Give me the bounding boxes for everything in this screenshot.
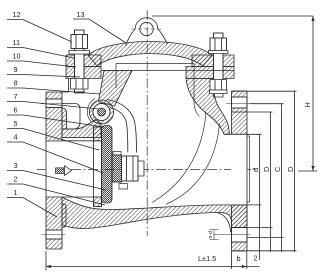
- svg-text:10: 10: [13, 52, 21, 61]
- left hub upper hatched: [62, 108, 67, 129]
- body bottom wall hatched: [62, 197, 247, 228]
- disc washer: [112, 155, 122, 182]
- bolt hole centerline bottom: [41, 234, 65, 236]
- leader 13: [73, 19, 126, 43]
- disc nut: [122, 156, 145, 181]
- body flange left hatched: [66, 67, 101, 79]
- leader 8: [7, 88, 100, 94]
- hinge pin: [93, 104, 110, 121]
- leader 10: [7, 61, 76, 67]
- bonnet arc band hatched: [88, 42, 212, 67]
- dim H extension top: [152, 15, 313, 17]
- dim D: [232, 91, 297, 252]
- svg-text:d: d: [251, 168, 260, 172]
- seat ring: [94, 127, 102, 207]
- leader 3: [7, 171, 106, 191]
- svg-text:9: 9: [14, 65, 18, 74]
- body right upper wall hatched: [186, 79, 229, 135]
- dim d: [247, 134, 262, 260]
- svg-text:6: 6: [14, 106, 18, 115]
- bonnet joint line: [101, 70, 234, 72]
- flow arrow: [56, 168, 66, 174]
- leader 6: [7, 115, 104, 127]
- svg-text:13: 13: [77, 10, 85, 19]
- bolt hole centerline top right: [226, 103, 250, 105]
- hinge boss outer: [90, 100, 114, 124]
- svg-text:D: D: [262, 167, 271, 172]
- inlet nozzle top wall hatched: [62, 120, 101, 138]
- hinge bracket hatched: [99, 71, 133, 107]
- bonnet spigot: [116, 64, 194, 71]
- svg-text:8: 8: [14, 79, 18, 88]
- leader 4: [7, 142, 103, 173]
- svg-text:11: 11: [13, 38, 21, 47]
- svg-text:7: 7: [14, 92, 18, 101]
- leader 1: [7, 198, 57, 218]
- leader 2: [7, 184, 105, 205]
- eye horizontal centerline: [131, 28, 163, 30]
- bolt hole centerline top: [41, 103, 65, 105]
- leader 9: [7, 75, 80, 78]
- dim H line: [298, 16, 317, 171]
- silhouette above pocket: [62, 79, 69, 93]
- body flange right hatched: [186, 67, 234, 79]
- stud left: [69, 30, 90, 93]
- body: left inlet flange: [41, 92, 65, 249]
- chamber bore silhouette left: [115, 71, 117, 89]
- centerline vertical body axis: [146, 10, 148, 236]
- dim C: [247, 104, 284, 252]
- svg-text:H: H: [303, 102, 312, 107]
- dim L line: [46, 266, 260, 268]
- dim n-hole bracket: [210, 230, 227, 240]
- dim D1: [232, 112, 273, 252]
- eye hole: [140, 22, 153, 35]
- svg-text:2: 2: [254, 254, 258, 263]
- disc hatched dense: [102, 126, 113, 204]
- leader 7: [7, 102, 99, 110]
- svg-text:5: 5: [14, 119, 18, 128]
- svg-text:4: 4: [14, 133, 18, 142]
- svg-text:C: C: [273, 167, 282, 172]
- waist pocket left (outline): [62, 104, 80, 130]
- svg-text:1: 1: [14, 188, 18, 197]
- bolt hole centerline bottom right: [226, 234, 250, 236]
- leader 12: [7, 20, 72, 43]
- lifting eye lug: [126, 18, 168, 46]
- chamber bore silhouette right: [194, 71, 200, 117]
- raised face right: [247, 136, 249, 202]
- swing arm: [107, 100, 137, 153]
- svg-text:12: 12: [13, 10, 21, 19]
- leader 11: [7, 48, 74, 59]
- left hub lower hatched: [62, 204, 66, 228]
- leader 5: [7, 129, 99, 151]
- bore top line right: [224, 133, 247, 135]
- svg-text:2: 2: [14, 175, 18, 184]
- centerline pipe axis: [37, 169, 257, 171]
- bonnet flange left hatched: [66, 55, 101, 67]
- dim b ticks: [232, 252, 247, 270]
- body: right outlet flange: [226, 91, 250, 251]
- bonnet flange right hatched: [192, 55, 234, 67]
- svg-text:3: 3: [14, 161, 18, 170]
- svg-text:D: D: [286, 167, 295, 172]
- svg-text:b: b: [237, 254, 241, 263]
- chamber floor silhouette curve: [152, 112, 220, 204]
- svg-text:n-d: n-d: [208, 231, 214, 239]
- inlet bore bottom line: [62, 196, 94, 198]
- svg-text:L±1.5: L±1.5: [198, 254, 216, 263]
- disc stop boss: [119, 184, 128, 190]
- stud right: [209, 33, 229, 97]
- dim L extension left: [45, 251, 47, 271]
